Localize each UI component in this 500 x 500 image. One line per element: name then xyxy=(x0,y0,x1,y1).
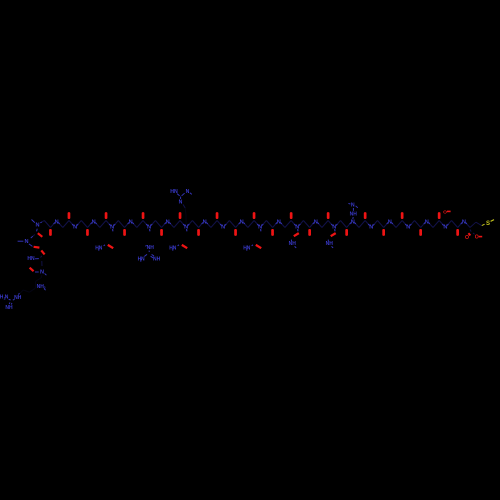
tail bond 3 xyxy=(34,281,36,288)
bond C-N 4-5 (C half) xyxy=(69,221,72,225)
Arg C-NH2 bond xyxy=(144,254,147,256)
bond N-Ca 14-15 (N half) xyxy=(132,223,133,225)
svg-text:O: O xyxy=(475,235,479,241)
bond C-N 46-47 (C half) xyxy=(328,221,331,225)
carbonyl O above x143 xyxy=(142,212,145,219)
bond N-Ca 62-63 (C half) xyxy=(430,224,433,228)
bold O at (31.5,269.5) xyxy=(30,268,34,272)
bond C-N 10-11 (C half) xyxy=(106,221,109,225)
bond N to backbone Ca (dark) xyxy=(42,221,44,222)
bond Ca-C 60-61 (dark) xyxy=(415,221,421,228)
bond N-Ca 44-45 (C half) xyxy=(319,224,322,228)
bond N-Ca 11-12 (N half) xyxy=(114,224,115,226)
svg-text:N: N xyxy=(186,189,190,195)
carbonyl O above x402 xyxy=(401,212,404,219)
carbonyl O below x124 xyxy=(123,229,126,236)
bold O at (43,252.5) xyxy=(41,250,44,254)
svg-text:S: S xyxy=(486,221,490,227)
bond C-N 22-23 (N half) xyxy=(183,224,184,226)
tail bond 4 xyxy=(29,288,35,292)
carbonyl O below x50 xyxy=(49,229,52,236)
NH2 stub xyxy=(44,289,46,291)
carbonyl O above x328 xyxy=(327,212,330,219)
bond Ca-C 39-40 (dark) xyxy=(285,221,291,228)
bond Ca-C 48-49 (dark) xyxy=(341,221,347,228)
bond N-Ca 53-54 (N half) xyxy=(373,224,374,226)
bond N-Ca 29-30 (C half) xyxy=(226,221,229,225)
bond C-N 31-32 (C half) xyxy=(236,224,239,228)
carbonyl O below x235 xyxy=(234,229,237,236)
svg-text:N: N xyxy=(141,256,145,262)
carbonyl O below x87 xyxy=(86,229,89,236)
bond N-Ca 59-60 (C half) xyxy=(411,221,414,225)
bond N-Ca 29-30 (N half) xyxy=(225,224,226,226)
bond C-N 49-50 (C half) xyxy=(347,224,350,228)
bond N-Ca 5-6 (C half) xyxy=(78,221,81,225)
bond N2 to C3 xyxy=(29,244,33,247)
bond N-Ca 68-69 (N half) xyxy=(466,223,467,225)
bond C-N 61-62 (C half) xyxy=(421,224,424,228)
tail bond 1 xyxy=(41,275,43,278)
bond C-N 37-38 (C half) xyxy=(273,224,276,228)
bond N-Ca 8-9 (C half) xyxy=(97,224,100,228)
bond C-N 67-68 (N half) xyxy=(461,223,462,225)
bond Ca-C 27-28 (dark) xyxy=(211,221,217,228)
bond N-Ca 38-39 (C half) xyxy=(282,224,285,228)
svg-text:N: N xyxy=(179,199,183,205)
bond N-Ca 26-27 (N half) xyxy=(206,223,207,225)
bond Ca-C 18-19 (dark) xyxy=(155,221,161,228)
svg-text:N: N xyxy=(388,219,392,225)
bond C-N 7-8 (C half) xyxy=(88,224,91,228)
bond C-N 58-59 (N half) xyxy=(405,224,406,226)
svg-text:N: N xyxy=(99,245,103,251)
bond N-Ca 5-6 (N half) xyxy=(77,224,78,226)
bond N-Ca 53-54 (C half) xyxy=(374,221,377,225)
bond C to N2 bright half xyxy=(31,236,33,238)
svg-text:NH: NH xyxy=(14,295,22,301)
guanidine double bond C=NH a xyxy=(8,302,11,304)
bond N-Ca 68-69 (C half) xyxy=(467,224,470,228)
His1 stem b xyxy=(184,208,187,215)
bond N-Ca 35-36 (N half) xyxy=(262,224,263,226)
His2 stem xyxy=(352,217,354,219)
bond C-N 40-41 (C half) xyxy=(291,221,294,225)
carbonyl O below x346 xyxy=(345,229,348,236)
COOH OH dash xyxy=(479,236,482,238)
His1 stem a xyxy=(183,204,185,208)
bond C-N 25-26 (C half) xyxy=(199,224,202,228)
svg-text:O: O xyxy=(443,209,447,215)
svg-text:HN: HN xyxy=(27,256,35,262)
bond N-Ca 17-18 (C half) xyxy=(152,221,155,225)
svg-text:NH: NH xyxy=(350,212,358,218)
bond C-N 40-41 (N half) xyxy=(294,224,295,226)
bond N-Ca 11-12 (C half) xyxy=(115,221,118,225)
bond C-N 28-29 (C half) xyxy=(217,221,220,225)
bond Ca-C 66-67 (dark) xyxy=(452,221,458,228)
Met CH2 bond 1 xyxy=(470,222,476,227)
Asn3 amide C=O bold xyxy=(256,245,261,248)
svg-text:N: N xyxy=(5,295,9,301)
carbonyl O above x68 xyxy=(68,212,71,219)
bond N-Ca 59-60 (N half) xyxy=(410,224,411,226)
svg-text:O: O xyxy=(465,235,469,241)
bond N-Ca 17-18 (N half) xyxy=(151,224,152,226)
guanidine NH tick xyxy=(18,293,19,294)
svg-text:N: N xyxy=(351,203,355,209)
bond N-Ca 35-36 (C half) xyxy=(263,221,266,225)
svg-text:NH: NH xyxy=(326,241,334,247)
svg-text:N: N xyxy=(173,245,177,251)
carbonyl O below x309 xyxy=(308,229,311,236)
carbonyl O below x383 xyxy=(382,229,385,236)
svg-text:N: N xyxy=(40,269,44,275)
bond N-Ca 47-48 (C half) xyxy=(337,221,340,225)
bond C-N 16-17 (N half) xyxy=(146,224,147,226)
bond C to N2 dark half xyxy=(33,235,35,237)
bond C-N 34-35 (C half) xyxy=(254,221,257,225)
svg-text:N: N xyxy=(406,224,410,230)
svg-text:N: N xyxy=(351,219,355,225)
bond C-N 1-2 (N half) xyxy=(54,223,55,225)
svg-text:N: N xyxy=(129,219,133,225)
side5 C=O bold xyxy=(294,233,299,236)
bond HN to C4 xyxy=(35,258,39,260)
bond C-N 13-14 (N half) xyxy=(128,223,129,225)
bond Ca-C 36-37 (dark) xyxy=(266,221,272,228)
bond C-N 25-26 (N half) xyxy=(202,223,203,225)
carbonyl O above x439 xyxy=(438,212,441,219)
bond Ca-C 63-64 (dark) xyxy=(433,221,439,228)
bond Ca-C 45-46 (dark) xyxy=(322,221,328,228)
carbonyl O above x180 xyxy=(179,212,182,219)
bond N-Ca 47-48 (N half) xyxy=(336,224,337,226)
carbonyl O above x291 xyxy=(290,212,293,219)
bond C-N 43-44 (N half) xyxy=(313,223,314,225)
COOH bond Ca-C xyxy=(470,230,471,232)
ring N stub xyxy=(45,273,47,275)
bond C-N 64-65 (C half) xyxy=(439,221,442,225)
His2 ring bond xyxy=(352,208,354,211)
carbonyl O above x365 xyxy=(364,212,367,219)
svg-text:NH: NH xyxy=(147,245,155,251)
bond Ca-C 57-58 (dark) xyxy=(396,221,402,228)
svg-text:N: N xyxy=(462,219,466,225)
Arg NH tick xyxy=(145,245,146,246)
svg-text:NH: NH xyxy=(289,241,297,247)
carbonyl O above x254 xyxy=(253,212,256,219)
svg-text:N: N xyxy=(277,219,281,225)
N side stem j17 xyxy=(149,229,151,231)
Asn2 amide C=O bold xyxy=(182,245,187,248)
bond Ca-C 12-13 (dark) xyxy=(118,221,124,228)
bond N-Ca 20-21 (C half) xyxy=(171,224,174,228)
bond C-N 55-56 (C half) xyxy=(384,224,387,228)
bond Ca-C 0-1 (dark) xyxy=(44,221,50,228)
bold O double bond (40,235) xyxy=(38,233,43,237)
bond C-N 4-5 (N half) xyxy=(72,224,73,226)
bond C-N 49-50 (N half) xyxy=(350,223,351,225)
bond Ca-C 9-10 (dark) xyxy=(100,221,106,228)
svg-text:N: N xyxy=(203,219,207,225)
Met bond to S xyxy=(482,224,485,225)
bond C-N 13-14 (C half) xyxy=(125,224,128,228)
N2 methyl bond left xyxy=(18,240,24,242)
svg-text:N: N xyxy=(166,219,170,225)
bond C-N 64-65 (N half) xyxy=(442,224,443,226)
tail bond 5 xyxy=(23,290,29,292)
N side stem j35 xyxy=(260,229,262,231)
bond N to backbone Ca (bright) xyxy=(40,222,42,223)
bond N-Ca 14-15 (C half) xyxy=(134,224,137,228)
bond N-Ca 50-51 (N half) xyxy=(355,223,356,225)
N side stem j47 xyxy=(334,229,336,231)
bond N-Ca 8-9 (N half) xyxy=(95,223,96,225)
carbonyl O above x106 xyxy=(105,212,108,219)
bond N-Ca 38-39 (N half) xyxy=(281,223,282,225)
carbonyl O below x161 xyxy=(160,229,163,236)
bond C-N 58-59 (C half) xyxy=(402,221,405,225)
His1 ring bond a xyxy=(177,194,180,196)
bond Ca-C 24-25 (dark) xyxy=(192,221,198,228)
bond N-Ca 23-24 (C half) xyxy=(189,221,192,225)
His1 ring bond b xyxy=(182,193,185,196)
bond N-Ca 20-21 (N half) xyxy=(169,223,170,225)
His1 ring bond c xyxy=(180,197,182,199)
guanidine bond C-NH2 xyxy=(9,298,11,301)
tail bond 2 xyxy=(36,278,42,282)
N side stem j23 xyxy=(186,229,188,231)
guanidine bond NH-C xyxy=(13,298,15,301)
COOH C=O bold xyxy=(468,233,470,235)
bond N-Ca 2-3 (C half) xyxy=(60,224,63,228)
His1 N stub xyxy=(190,193,192,195)
bond N-Ca 56-57 (C half) xyxy=(393,224,396,228)
bond C-N 16-17 (C half) xyxy=(143,221,146,225)
bond Ca-C 30-31 (dark) xyxy=(229,221,235,228)
bond Ca-C 6-7 (dark) xyxy=(81,221,87,228)
bond N-Ca 32-33 (N half) xyxy=(244,223,245,225)
svg-text:N: N xyxy=(443,224,447,230)
bond C-N 52-53 (C half) xyxy=(365,221,368,225)
bond C-N 67-68 (C half) xyxy=(458,224,461,228)
tail bond 6 xyxy=(20,290,24,294)
Arg C=NH double b xyxy=(151,256,153,258)
carbonyl O below x420 xyxy=(419,229,422,236)
bond N-Ca 26-27 (C half) xyxy=(208,224,211,228)
carbonyl O below x457 xyxy=(456,229,459,236)
svg-text:N: N xyxy=(73,224,77,230)
bond C-N 10-11 (N half) xyxy=(109,224,110,226)
carbonyl O below x272 xyxy=(271,229,274,236)
bond C-N 55-56 (N half) xyxy=(387,223,388,225)
N side stem j11 xyxy=(112,229,114,231)
His2 stub xyxy=(356,206,358,208)
bond C-N 28-29 (N half) xyxy=(220,224,221,226)
bond C4 up to O xyxy=(41,256,42,258)
bond N-Ca 65-66 (C half) xyxy=(448,221,451,225)
guanidine double bond C=NH b xyxy=(10,303,13,305)
bond C-N 19-20 (N half) xyxy=(165,223,166,225)
bond C-N 31-32 (N half) xyxy=(239,223,240,225)
bond C-N 34-35 (N half) xyxy=(257,224,258,226)
bond O=C to ring N xyxy=(35,271,39,273)
N-terminal methyl bond xyxy=(32,220,35,223)
svg-text:N: N xyxy=(425,219,429,225)
bond N-Ca 56-57 (N half) xyxy=(392,223,393,225)
bond C-N 22-23 (C half) xyxy=(180,221,183,225)
bond C-N 43-44 (C half) xyxy=(310,224,313,228)
bond C-N 19-20 (C half) xyxy=(162,224,165,228)
Asn1 amide C=O bold xyxy=(108,245,113,248)
bond C-N 7-8 (N half) xyxy=(91,223,92,225)
bond Ca-C 42-43 (dark) xyxy=(303,221,309,228)
bond Ca-C 54-55 (dark) xyxy=(378,221,384,228)
bond Ca-C 21-22 (dark) xyxy=(174,221,180,228)
bond Ca-C 3-4 (dark) xyxy=(63,221,69,228)
bond C-N 1-2 (C half) xyxy=(51,224,54,228)
svg-text:N: N xyxy=(24,239,28,245)
bond N-Ca 32-33 (C half) xyxy=(245,224,248,228)
bond N-Ca 41-42 (N half) xyxy=(299,224,300,226)
COOH C-OH bond xyxy=(473,233,475,234)
bond N-Ca 62-63 (N half) xyxy=(429,223,430,225)
carbonyl O below x198 xyxy=(197,229,200,236)
bond N-Ca 65-66 (N half) xyxy=(447,224,448,226)
svg-text:N: N xyxy=(369,224,373,230)
bond N-Ca 41-42 (C half) xyxy=(300,221,303,225)
bond C4 down xyxy=(41,261,43,266)
svg-text:N: N xyxy=(35,222,39,228)
bold O at (36.5,247) xyxy=(34,246,40,249)
bond C-N 52-53 (N half) xyxy=(368,224,369,226)
bond N-Ca 44-45 (N half) xyxy=(318,223,319,225)
svg-text:NH: NH xyxy=(153,256,161,262)
svg-text:N: N xyxy=(55,219,59,225)
N side stem j41 xyxy=(297,229,299,231)
bond N-Ca 23-24 (N half) xyxy=(188,224,189,226)
svg-text:N: N xyxy=(247,245,251,251)
svg-text:N: N xyxy=(221,224,225,230)
bond N down to C xyxy=(36,229,39,232)
bond C-N 46-47 (N half) xyxy=(331,224,332,226)
Arg C=NH double a xyxy=(152,254,154,256)
carbonyl O above x217 xyxy=(216,212,219,219)
bond C-N 61-62 (N half) xyxy=(424,223,425,225)
bond N-Ca 50-51 (C half) xyxy=(356,224,359,228)
svg-text:NH: NH xyxy=(5,305,13,311)
Met S-CH3 bond xyxy=(491,220,494,222)
svg-text:N: N xyxy=(240,219,244,225)
svg-text:N: N xyxy=(314,219,318,225)
His1 stem c xyxy=(185,215,187,224)
bond C-N 37-38 (N half) xyxy=(276,223,277,225)
bond N-Ca 2-3 (N half) xyxy=(58,223,59,225)
bond Ca-C 15-16 (dark) xyxy=(137,221,143,228)
svg-text:N: N xyxy=(92,219,96,225)
bond Ca-C 51-52 (dark) xyxy=(359,221,365,228)
side6 C=O bold xyxy=(331,233,336,236)
bond Ca-C 33-34 (dark) xyxy=(248,221,254,228)
Arg NH-C bond xyxy=(148,251,150,252)
Met CH2 bond 2 xyxy=(476,222,482,225)
His2 tick xyxy=(348,202,350,205)
